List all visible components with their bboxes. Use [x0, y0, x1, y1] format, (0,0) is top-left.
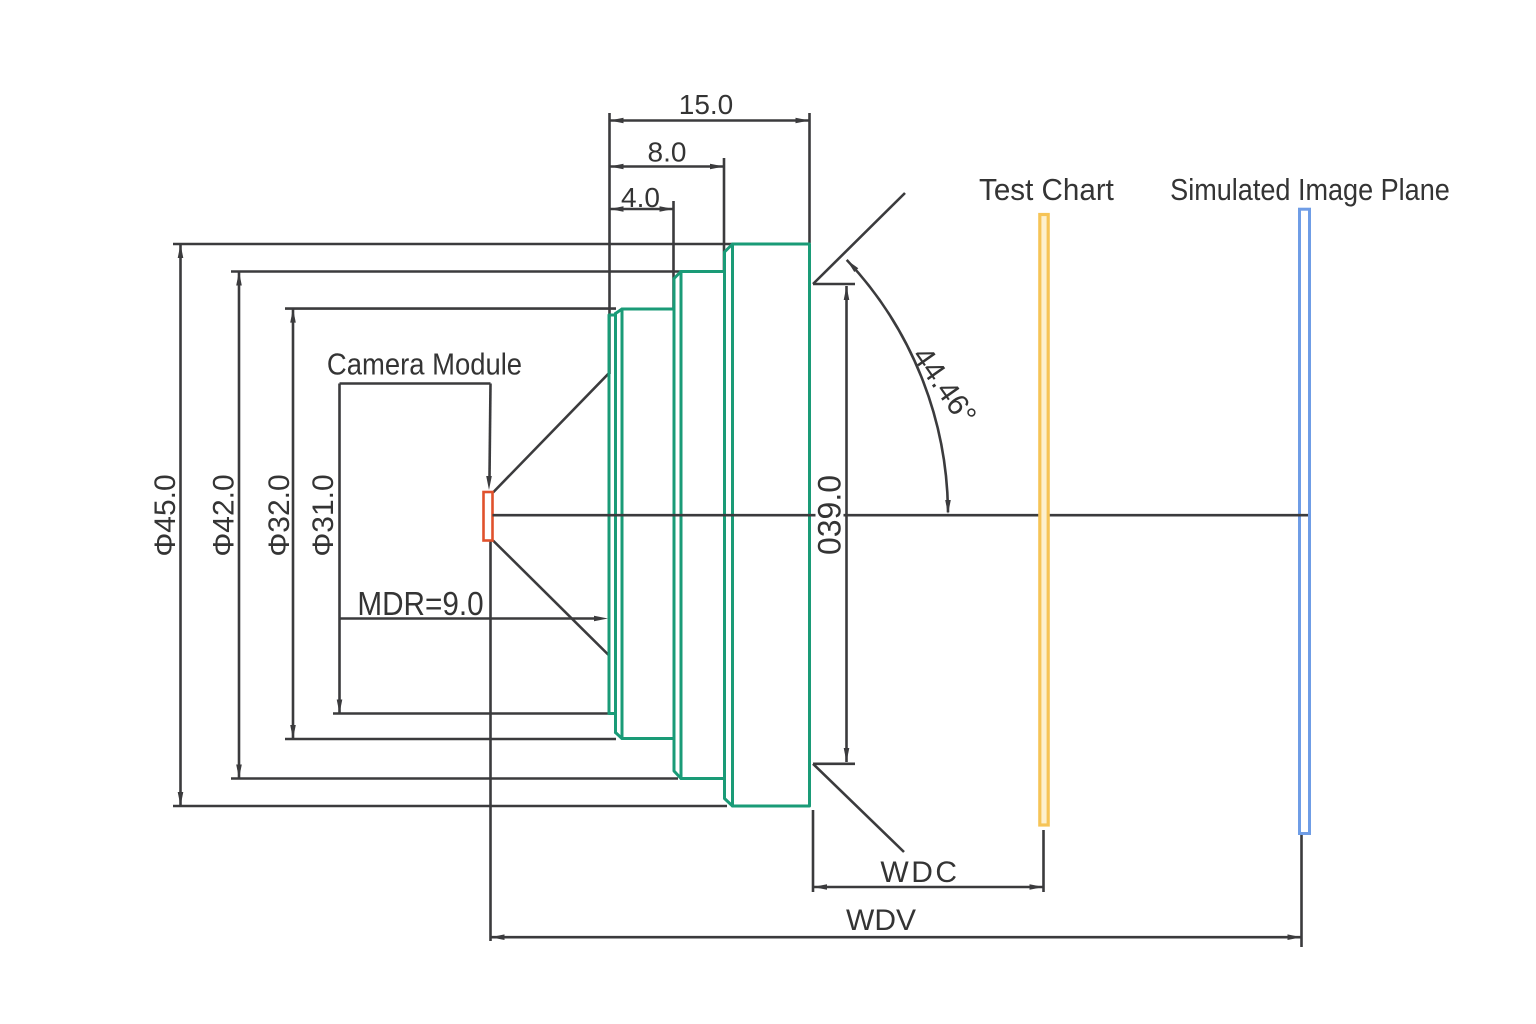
dia39 dimension line: [845, 286, 848, 762]
lens barrel outline: [609, 244, 810, 806]
svg-text:WDC: WDC: [880, 856, 959, 889]
svg-text:44.46°: 44.46°: [906, 341, 983, 431]
extension line x=609.5 (rear face datum): [608, 113, 611, 374]
phi42 dimension line: [238, 272, 241, 779]
dimension 4.0 line: [610, 208, 674, 211]
svg-text:Φ31.0: Φ31.0: [307, 474, 340, 556]
sensor cone line upper: [493, 374, 609, 493]
sensor (camera module) rectangle: [484, 492, 493, 541]
svg-text:039.0: 039.0: [812, 475, 848, 555]
sensor cone line lower: [493, 541, 609, 656]
phi42 top extension line: [231, 270, 681, 273]
WDV dimension line: [491, 936, 1302, 939]
svg-text:Camera Module: Camera Module: [327, 348, 522, 382]
svg-text:4.0: 4.0: [621, 182, 660, 213]
camera module box top edge: [340, 382, 491, 385]
lens rear section chamfer edge: [621, 309, 624, 739]
phi32 dimension line: [292, 309, 295, 739]
svg-text:Simulated Image Plane: Simulated Image Plane: [1170, 173, 1450, 207]
phi31 dimension line / camera module box left edge: [338, 384, 341, 714]
extension line x=724 (8.0 right): [723, 158, 726, 270]
sensor leader line below sensor to WDV: [489, 541, 492, 942]
lens front section chamfer edge: [731, 244, 734, 806]
lens middle section chamfer edge: [680, 272, 683, 779]
lens front section (phi45): [725, 244, 810, 806]
phi42 bottom extension line: [231, 777, 678, 780]
extension line x=673.5 (4.0 right): [672, 201, 675, 308]
svg-text:Φ32.0: Φ32.0: [263, 474, 296, 556]
svg-text:Φ45.0: Φ45.0: [149, 474, 182, 556]
lens rear face edge: [614, 314, 617, 733]
centerline (optical axis): [493, 514, 1309, 517]
WDC left extension line: [812, 810, 815, 892]
lens middle section (phi42): [674, 272, 725, 779]
phi45 bottom extension line: [173, 805, 727, 808]
phi31 bottom extension line / camera module box bottom: [333, 712, 609, 715]
svg-text:Φ42.0: Φ42.0: [208, 474, 241, 556]
simulated image plane: [1300, 209, 1310, 833]
angle arc: [847, 260, 948, 513]
angle ray 44.46 deg: [813, 193, 905, 284]
lens rear lip (phi31): [609, 315, 616, 714]
dia39 bottom oblique line: [813, 764, 904, 852]
svg-text:WDV: WDV: [846, 904, 916, 937]
dimension 15.0 line: [610, 119, 810, 122]
phi32 bottom extension line: [285, 738, 616, 741]
WDV right extension line (image plane): [1300, 835, 1303, 947]
phi45 top extension line: [173, 243, 733, 246]
WDC right extension line (test chart): [1042, 830, 1045, 892]
MDR leader line: [340, 617, 595, 620]
knockout behind dia39 text: [816, 471, 844, 559]
svg-text:8.0: 8.0: [648, 137, 687, 168]
lens rear section (phi32): [616, 309, 675, 739]
svg-text:15.0: 15.0: [679, 89, 734, 120]
dia39 bottom tick: [813, 762, 855, 765]
test chart plane: [1040, 215, 1048, 826]
svg-text:MDR=9.0: MDR=9.0: [357, 586, 483, 623]
WDC dimension line: [813, 886, 1044, 889]
dimension 8.0 line: [610, 165, 725, 168]
phi45 dimension line: [179, 244, 182, 806]
camera module leader line down to sensor: [490, 384, 491, 478]
extension line x=809.5 (15.0 right / front face): [808, 113, 811, 243]
angle top tick: [813, 283, 855, 286]
svg-text:Test Chart: Test Chart: [979, 173, 1114, 207]
phi32 top extension line: [285, 307, 616, 310]
